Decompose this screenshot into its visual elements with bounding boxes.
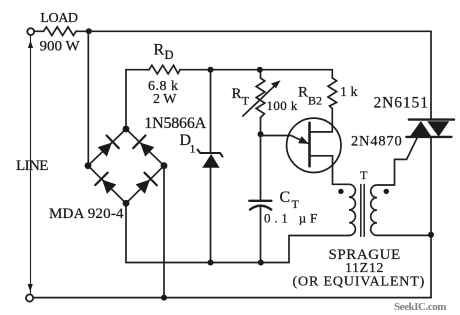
transformer T primary winding — [289, 184, 355, 262]
terminal top-left line input — [27, 28, 34, 35]
svg-text:T: T — [360, 168, 368, 182]
UJT B2 lead — [311, 131, 333, 133]
bridge diode SE — [134, 173, 157, 196]
node junction load/bridge — [86, 28, 92, 34]
svg-text:LOAD: LOAD — [40, 11, 78, 26]
svg-text:C: C — [280, 189, 291, 206]
node bridge left corner — [85, 162, 92, 169]
svg-text:1 k: 1 k — [340, 85, 358, 100]
wire line left vertical with arrows — [30, 36, 32, 294]
wire right rail bottom — [430, 137, 432, 298]
svg-text:R: R — [298, 85, 308, 101]
svg-text:T: T — [242, 93, 250, 107]
node bridge bottom corner — [123, 200, 130, 207]
wire RT branch top — [260, 70, 262, 78]
capacitor CT — [260, 134, 262, 200]
node RT top junction — [257, 67, 263, 73]
node secondary/right rail junction — [428, 232, 434, 238]
unijunction transistor U1 2N4870 circle — [287, 118, 341, 172]
wire top rail — [76, 30, 431, 32]
wire bridge top to RD — [126, 70, 149, 129]
triac Q1 2N6151 — [409, 118, 454, 120]
node bridge right corner — [161, 162, 168, 169]
triac gate lead — [395, 137, 418, 160]
svg-text:R: R — [232, 86, 242, 102]
wire negative rail bridge bottom — [126, 203, 289, 262]
svg-text:1N5866A: 1N5866A — [144, 115, 206, 132]
svg-text:LINE: LINE — [16, 158, 48, 174]
resistor RD — [149, 65, 180, 74]
svg-text:T: T — [292, 197, 300, 211]
node RT/CT/emitter junction — [258, 131, 264, 137]
terminal bottom-left line input — [26, 294, 33, 301]
svg-text:900 W: 900 W — [40, 39, 81, 55]
node bridge top corner — [123, 126, 130, 133]
wire junction to bridge left corner — [87, 31, 89, 165]
wire right rail top — [430, 31, 432, 119]
svg-text:SeekIC.com: SeekIC.com — [394, 301, 446, 313]
node D1 bottom junction — [208, 260, 214, 266]
svg-text:0.1 µF: 0.1 µF — [264, 210, 321, 225]
svg-text:1: 1 — [190, 142, 196, 156]
svg-text:R: R — [154, 42, 165, 59]
svg-text:2 W: 2 W — [153, 92, 177, 107]
UJT base bar — [308, 123, 311, 166]
transformer primary phase dot — [338, 189, 343, 194]
UJT B1 lead — [311, 156, 333, 185]
UJT emitter lead with arrow — [261, 135, 292, 137]
bridge diode NE — [133, 136, 156, 159]
svg-text:2N4870: 2N4870 — [351, 134, 403, 150]
svg-text:2N6151: 2N6151 — [374, 95, 429, 112]
transformer secondary phase dot — [384, 189, 389, 194]
svg-text:MDA 920-4: MDA 920-4 — [49, 206, 124, 222]
wire top rail left lead — [34, 30, 43, 32]
resistor RB2 — [328, 70, 337, 132]
transformer secondary winding — [371, 159, 431, 235]
wire dc+ rail — [180, 69, 332, 71]
wire bottom rail — [33, 297, 431, 299]
svg-text:100 k: 100 k — [267, 98, 298, 113]
svg-text:B2: B2 — [308, 93, 322, 107]
transformer core — [360, 185, 362, 237]
bridge rectifier MDA920-4 edges — [88, 129, 126, 166]
potentiometer RT — [256, 78, 265, 118]
wire RT bottom — [260, 118, 262, 135]
load resistor — [44, 27, 77, 36]
svg-text:D: D — [165, 48, 174, 62]
bridge diode SW — [95, 173, 118, 196]
svg-text:(OR EQUIVALENT): (OR EQUIVALENT) — [293, 275, 426, 290]
node bottom rail junction — [161, 295, 167, 301]
bridge diode NW — [96, 136, 119, 159]
wire bridge right corner to bottom rail — [163, 166, 165, 298]
node CT bottom junction — [258, 260, 264, 266]
node RD/D1 junction — [208, 67, 214, 73]
zener diode D1 — [210, 70, 212, 153]
